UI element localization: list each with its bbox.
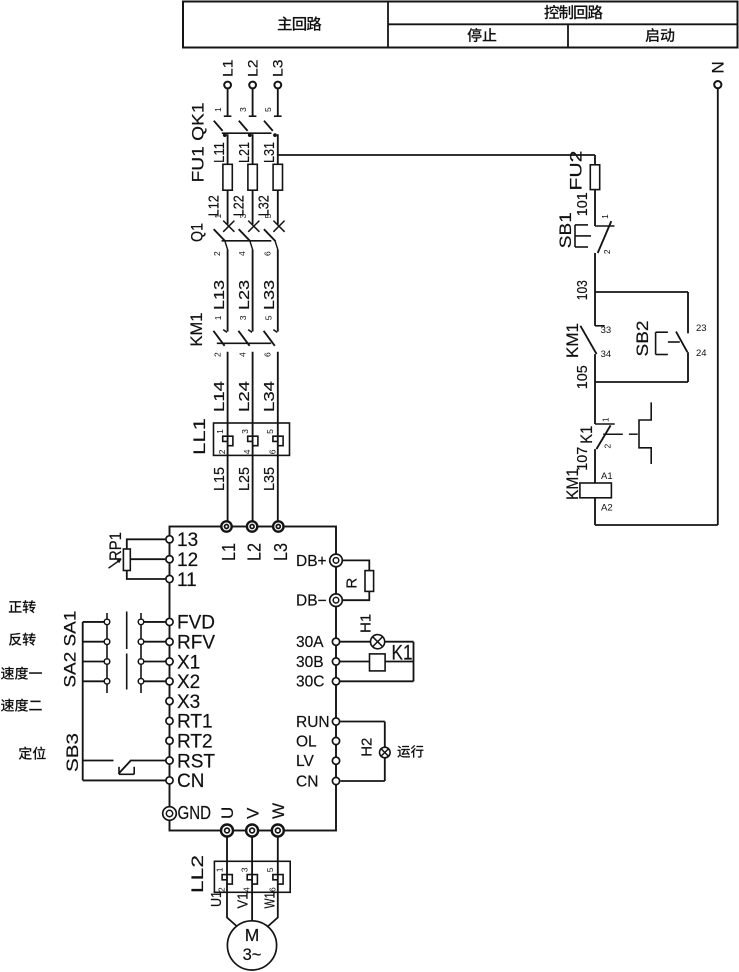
svg-text:30A: 30A xyxy=(296,634,324,651)
svg-text:K1: K1 xyxy=(578,426,596,444)
svg-text:V: V xyxy=(243,807,262,819)
svg-text:L31: L31 xyxy=(262,142,278,163)
RP1 wiper arrow xyxy=(109,559,122,569)
wire H2 rail upper xyxy=(384,722,386,748)
wire LL1 through phase 1 xyxy=(227,423,229,455)
wire 103 to KM1 aux xyxy=(594,292,596,326)
title table divider main/control xyxy=(387,2,389,48)
svg-text:N: N xyxy=(709,61,728,73)
wire U1 to motor xyxy=(227,892,239,928)
contactor KM1 pole 3 contact+blade xyxy=(264,330,278,346)
terminal L3 xyxy=(274,82,281,89)
wire node L32 to Q1 xyxy=(277,190,279,224)
inverter terminal RFV xyxy=(166,638,173,645)
Q1 linkage bar xyxy=(222,240,272,242)
svg-text:6: 6 xyxy=(262,251,272,256)
wire V1 to motor xyxy=(251,892,253,920)
svg-text:OL: OL xyxy=(296,733,317,750)
reactor LL2 phase 2 winding xyxy=(247,875,257,885)
svg-text:L25: L25 xyxy=(237,467,253,491)
wire SA to terminal X2 xyxy=(144,680,166,682)
svg-text:3: 3 xyxy=(240,867,250,872)
potentiometer RP1 body xyxy=(123,549,130,571)
svg-text:34: 34 xyxy=(601,349,612,360)
function label 反转 xyxy=(9,633,36,646)
junction QK1 pole 3 xyxy=(273,133,277,137)
wire K1 coil to rail xyxy=(385,661,413,663)
svg-text:L33: L33 xyxy=(262,280,278,310)
wire SB2 to node 105 xyxy=(687,352,689,382)
inverter terminal RUN xyxy=(332,718,339,725)
switch QK1 pole 3 contact+blade xyxy=(264,116,282,131)
SA contact left circle row RFV xyxy=(104,639,110,645)
inverter U0 box xyxy=(170,527,337,831)
SA contact left circle row X2 xyxy=(104,679,110,685)
wire node L12 to Q1 xyxy=(227,190,229,224)
svg-text:L32: L32 xyxy=(257,195,273,216)
svg-text:W: W xyxy=(269,803,288,819)
inverter terminal 13 xyxy=(166,536,173,543)
wire node 105 merge xyxy=(595,381,688,383)
fuse FU1 pole 2 xyxy=(248,164,257,190)
terminal L2 xyxy=(249,82,256,89)
svg-text:3~: 3~ xyxy=(243,946,262,964)
wire KM1 aux to node 105 xyxy=(594,354,596,382)
wire node 103 branch xyxy=(595,291,688,293)
svg-text:RFV: RFV xyxy=(177,633,215,654)
SA contact right circle row FVD xyxy=(138,619,144,625)
wire L1 to QK1 xyxy=(227,88,229,116)
wire R to DB- xyxy=(342,591,369,600)
control common bus xyxy=(82,622,84,781)
function label 速度一 xyxy=(1,667,42,680)
wire 30B to K1 coil xyxy=(340,661,370,663)
svg-text:3: 3 xyxy=(238,107,248,112)
wire bus to SA contact row 3 xyxy=(83,661,105,663)
svg-text:4: 4 xyxy=(242,887,252,892)
wire RP1 wiper to 12 xyxy=(130,558,165,560)
svg-text:CN: CN xyxy=(177,771,204,792)
svg-text:X1: X1 xyxy=(177,652,200,673)
inverter terminal 30B xyxy=(332,658,339,665)
SA contact left circle row FVD xyxy=(104,619,110,625)
function label 定位 xyxy=(19,747,46,760)
title table mid horizontal line xyxy=(388,23,738,25)
svg-text:L15: L15 xyxy=(212,467,228,491)
svg-text:6: 6 xyxy=(263,352,273,357)
reactor LL2 phase 1 winding xyxy=(222,875,232,885)
svg-text:2: 2 xyxy=(603,444,613,449)
svg-text:SB3: SB3 xyxy=(64,733,82,772)
wire U to LL2 xyxy=(226,837,228,862)
lamp H1 xyxy=(371,635,385,649)
wire SB3 to RST xyxy=(130,760,166,762)
table title 启动 xyxy=(645,28,674,42)
SA contact left circle row X1 xyxy=(104,659,110,665)
switch QK1 pole 2 contact+blade xyxy=(239,116,257,131)
svg-text:L24: L24 xyxy=(237,381,253,412)
svg-text:L35: L35 xyxy=(262,467,278,491)
svg-text:L23: L23 xyxy=(237,280,253,310)
svg-text:3: 3 xyxy=(238,214,248,219)
svg-text:U1: U1 xyxy=(209,891,225,907)
wire SA to terminal RFV xyxy=(144,641,166,643)
wire K1 to KM1 coil xyxy=(594,449,596,483)
wire LL1 through phase 3 xyxy=(277,423,279,455)
svg-text:M: M xyxy=(245,925,260,945)
svg-text:U: U xyxy=(218,807,237,819)
table title 停止 xyxy=(467,28,496,42)
wire bus to SA contact row 4 xyxy=(83,680,105,682)
wire L3 to QK1 xyxy=(277,88,279,116)
svg-text:5: 5 xyxy=(263,214,273,219)
wire right rail H1/K1 xyxy=(413,642,415,682)
junction QK1 pole 1 xyxy=(223,133,227,137)
svg-text:L22: L22 xyxy=(231,195,247,216)
inverter terminal X2 xyxy=(166,678,173,685)
inverter terminal L1 top xyxy=(221,521,231,531)
wire LL1 through phase 2 xyxy=(252,423,254,455)
wire node L35 to inverter xyxy=(277,455,279,521)
inverter terminal OL xyxy=(332,737,339,744)
motor M xyxy=(227,921,276,970)
reactor LL2 phase 3 winding xyxy=(273,875,283,885)
KM1 linkage bar xyxy=(217,342,271,344)
table title 主回路 xyxy=(278,16,322,30)
reactor LL1 phase 3 winding xyxy=(273,436,283,446)
wire node L13 to KM1 xyxy=(227,250,229,332)
svg-text:1: 1 xyxy=(601,417,611,422)
contactor KM1 aux contact (NO) xyxy=(580,326,604,354)
wire 30A to H1 xyxy=(340,641,371,643)
contactor KM1 pole 2 contact+blade xyxy=(238,330,252,346)
wire node L21 to FU1 xyxy=(252,134,254,164)
svg-text:30C: 30C xyxy=(296,674,324,691)
wire DB+ to R xyxy=(342,560,369,570)
inverter terminal RT1 xyxy=(166,717,173,724)
svg-text:L13: L13 xyxy=(212,280,228,310)
svg-text:RP1: RP1 xyxy=(107,532,125,561)
pushbutton SB3 (NO) contact xyxy=(119,761,135,775)
svg-text:L34: L34 xyxy=(262,381,278,412)
svg-text:5: 5 xyxy=(263,315,273,320)
wire H2 to CN xyxy=(340,780,384,782)
wire SA to terminal FVD xyxy=(144,621,166,623)
svg-text:4: 4 xyxy=(237,352,247,357)
svg-text:FU1 QK1: FU1 QK1 xyxy=(190,103,208,183)
svg-text:24: 24 xyxy=(696,348,707,359)
wire SA to terminal X1 xyxy=(144,661,166,663)
breaker Q1 pole 2 contact+blade xyxy=(239,221,260,250)
svg-text:13: 13 xyxy=(177,530,198,551)
svg-text:V1: V1 xyxy=(236,893,252,909)
wire RUN to H2 rail xyxy=(340,721,384,723)
svg-text:L2: L2 xyxy=(244,59,260,77)
contactor KM1 coil xyxy=(580,483,612,498)
wire LL2 through phase 2 xyxy=(251,861,253,892)
wire tap to control circuit xyxy=(278,154,595,156)
svg-text:1: 1 xyxy=(215,429,225,434)
svg-text:SB1: SB1 xyxy=(557,212,575,248)
SA moving bar right xyxy=(140,613,142,693)
svg-text:5: 5 xyxy=(265,429,275,434)
inverter terminal 12 xyxy=(166,556,173,563)
svg-text:A1: A1 xyxy=(601,471,613,482)
wire node L22 to Q1 xyxy=(252,190,254,224)
svg-text:L12: L12 xyxy=(206,195,222,216)
svg-text:3: 3 xyxy=(238,315,248,320)
inverter terminal FVD xyxy=(166,618,173,625)
wire bus to SA contact row 2 xyxy=(83,641,105,643)
K1 mechanism link dashes xyxy=(603,433,638,435)
svg-text:1: 1 xyxy=(213,214,223,219)
svg-text:2: 2 xyxy=(602,249,612,254)
svg-text:H1: H1 xyxy=(358,614,375,633)
inverter terminal 30A xyxy=(332,638,339,645)
switch QK1 pole 1 contact+blade xyxy=(214,116,232,131)
fuse FU1 pole 1 xyxy=(223,164,232,190)
inverter terminal L2 top xyxy=(247,521,257,531)
wire node L23 to KM1 xyxy=(252,250,254,332)
svg-text:H2: H2 xyxy=(358,738,375,757)
wire node 101 xyxy=(594,190,596,226)
wire KM1 coil to N xyxy=(595,498,718,525)
inverter terminal X3 xyxy=(166,698,173,705)
breaker Q1 pole 1 contact+blade xyxy=(214,221,235,250)
terminal N xyxy=(714,81,721,88)
svg-text:L21: L21 xyxy=(237,142,253,163)
svg-text:4: 4 xyxy=(242,449,252,454)
wire W to LL2 xyxy=(277,837,279,862)
pushbutton SB1 (NC) contact xyxy=(575,221,615,253)
svg-text:FU2: FU2 xyxy=(568,151,586,191)
svg-text:2: 2 xyxy=(217,449,227,454)
svg-text:DB+: DB+ xyxy=(296,553,327,570)
junction QK1 pole 2 xyxy=(248,133,252,137)
wire node L24 to LL1 xyxy=(252,352,254,423)
inverter terminal CN xyxy=(332,777,339,784)
svg-text:RUN: RUN xyxy=(296,714,330,731)
svg-text:2: 2 xyxy=(212,352,222,357)
svg-text:X3: X3 xyxy=(177,692,200,713)
wire node L33 to KM1 xyxy=(277,250,279,332)
svg-text:W1: W1 xyxy=(263,893,279,909)
svg-text:103: 103 xyxy=(575,280,591,300)
inverter terminal V bottom xyxy=(246,825,258,837)
relay K1 coil xyxy=(370,654,386,671)
svg-text:33: 33 xyxy=(601,325,612,336)
svg-text:L11: L11 xyxy=(212,142,228,163)
svg-text:1: 1 xyxy=(214,867,224,872)
wire bus to SB3 xyxy=(83,760,114,762)
svg-text:11: 11 xyxy=(177,570,197,591)
wire SB1 to node 103 xyxy=(594,253,596,292)
breaker Q1 pole 3 contact+blade xyxy=(264,221,285,250)
pushbutton SB2 (NO) contact xyxy=(656,332,688,355)
svg-text:1: 1 xyxy=(600,214,610,219)
wire H1 to rail xyxy=(385,641,414,643)
function label 速度二 xyxy=(1,699,42,712)
svg-text:SA2 SA1: SA2 SA1 xyxy=(62,611,80,688)
inverter terminal X1 xyxy=(166,658,173,665)
wire LL2 through phase 3 xyxy=(277,861,279,892)
svg-text:1: 1 xyxy=(213,107,223,112)
K1 mechanism symbol xyxy=(639,402,651,464)
wire RP1 top to 13 xyxy=(127,539,166,549)
wire node L14 to LL1 xyxy=(227,352,229,423)
reactor LL1 phase 2 winding xyxy=(248,436,258,446)
terminal L1 xyxy=(224,82,231,89)
title table divider stop/start xyxy=(567,24,569,47)
wire node L15 to inverter xyxy=(227,455,229,521)
wire H2 rail lower xyxy=(384,758,386,781)
svg-text:RT1: RT1 xyxy=(177,712,213,733)
SA contact right circle row X2 xyxy=(138,679,144,685)
svg-text:R: R xyxy=(343,578,360,589)
svg-text:3: 3 xyxy=(240,429,250,434)
wire RP1 bottom to 11 xyxy=(127,571,166,580)
inverter terminal DB- xyxy=(330,594,343,607)
wire branch down to SB2 xyxy=(687,292,689,333)
svg-text:DB−: DB− xyxy=(296,593,327,610)
SA contact right circle row X1 xyxy=(138,659,144,665)
svg-text:RT2: RT2 xyxy=(177,732,213,753)
wire L2 to QK1 xyxy=(252,88,254,116)
wire node L34 to LL1 xyxy=(277,352,279,423)
inverter terminal RT2 xyxy=(166,737,173,744)
wire node L11 to FU1 xyxy=(227,134,229,164)
inverter terminal W bottom xyxy=(272,825,284,837)
inverter terminal U bottom xyxy=(221,825,233,837)
svg-text:L1: L1 xyxy=(219,59,235,77)
svg-text:6: 6 xyxy=(267,449,277,454)
svg-text:23: 23 xyxy=(696,323,707,334)
reactor LL1 phase 1 winding xyxy=(223,436,233,446)
wire 155 corner to FU2 xyxy=(594,155,596,165)
inverter terminal DB+ xyxy=(330,554,343,567)
svg-text:4: 4 xyxy=(237,251,247,256)
svg-text:L3: L3 xyxy=(270,59,286,77)
svg-text:5: 5 xyxy=(265,867,275,872)
wire bus to CN xyxy=(83,779,166,781)
svg-text:2: 2 xyxy=(212,251,222,256)
resistor R body xyxy=(365,571,374,592)
inverter terminal 30C xyxy=(332,678,339,685)
svg-text:X2: X2 xyxy=(177,672,200,693)
svg-text:KM1: KM1 xyxy=(564,323,582,358)
svg-text:A2: A2 xyxy=(601,503,613,514)
svg-text:L14: L14 xyxy=(212,381,228,412)
relay K1 contact (NO) xyxy=(595,424,615,449)
QK1 linkage bar xyxy=(222,132,272,134)
svg-text:CN: CN xyxy=(296,773,318,790)
reactor LL1 box xyxy=(214,423,290,455)
svg-text:SB2: SB2 xyxy=(634,321,652,357)
fuse FU1 pole 3 xyxy=(273,164,282,190)
inverter terminal L3 top xyxy=(273,521,283,531)
function label 正转 xyxy=(9,600,36,613)
svg-text:LV: LV xyxy=(296,753,314,770)
title table frame xyxy=(183,2,738,48)
svg-text:30B: 30B xyxy=(296,654,324,671)
svg-text:L2: L2 xyxy=(244,543,265,561)
inverter terminal RST xyxy=(166,757,173,764)
svg-text:FVD: FVD xyxy=(177,613,215,634)
svg-text:107: 107 xyxy=(575,447,591,471)
SA mechanical link xyxy=(126,612,128,690)
svg-text:L3: L3 xyxy=(270,543,291,561)
SA contact right circle row RFV xyxy=(138,639,144,645)
SA moving bar left xyxy=(106,613,108,693)
reactor LL2 box xyxy=(214,861,290,892)
inverter terminal GND xyxy=(163,807,177,821)
svg-text:RST: RST xyxy=(177,751,215,772)
svg-text:1: 1 xyxy=(213,315,223,320)
lamp H2 caption 运行 xyxy=(397,745,423,758)
inverter terminal 11 xyxy=(166,575,173,582)
contactor KM1 pole 1 contact+blade xyxy=(213,330,227,346)
svg-text:GND: GND xyxy=(178,803,212,823)
wire rail to 30C xyxy=(340,680,414,682)
svg-text:LL1: LL1 xyxy=(191,418,209,455)
svg-text:105: 105 xyxy=(575,365,591,389)
svg-text:Q1: Q1 xyxy=(189,223,207,242)
svg-text:5: 5 xyxy=(263,107,273,112)
table title 控制回路 xyxy=(544,5,602,19)
wire node L25 to inverter xyxy=(252,455,254,521)
wire V to LL2 xyxy=(251,837,253,862)
svg-text:LL2: LL2 xyxy=(189,855,207,893)
svg-text:L1: L1 xyxy=(218,543,239,561)
wire bus to SA contact row 1 xyxy=(83,621,105,623)
svg-text:6: 6 xyxy=(267,887,277,892)
wire 105 to K1 xyxy=(594,382,596,424)
wire W1 to motor xyxy=(266,892,278,928)
lamp H2 xyxy=(380,747,391,758)
inverter terminal LV xyxy=(332,757,339,764)
wire LL2 through phase 1 xyxy=(226,861,228,892)
svg-text:KM1: KM1 xyxy=(188,313,206,347)
wire N rail xyxy=(717,88,719,525)
fuse FU2 xyxy=(590,165,599,190)
svg-text:12: 12 xyxy=(177,550,198,571)
svg-text:101: 101 xyxy=(575,192,591,216)
wire node L31 to FU1 xyxy=(277,134,279,164)
inverter terminal CN xyxy=(166,777,173,784)
